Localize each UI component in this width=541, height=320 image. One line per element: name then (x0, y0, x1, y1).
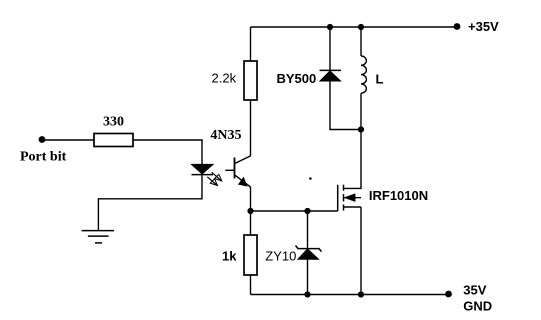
label 35V (463, 283, 486, 298)
label 2.2k (212, 71, 237, 86)
phototransistor of 4N35 (225, 156, 250, 187)
wire gate line (251, 210, 338, 212)
label 4N35 (210, 128, 241, 143)
label BY500 (277, 71, 317, 86)
wire rail to inductor L (360, 27, 362, 56)
svg-text:2.2k: 2.2k (212, 71, 237, 86)
resistor 330 (94, 134, 133, 147)
wire rail to BY500 cathode (329, 27, 331, 71)
stray dot (309, 177, 312, 180)
node Port bit terminal (39, 136, 46, 143)
label IRF1010N (369, 188, 428, 203)
svg-text:L: L (376, 72, 384, 87)
wire +35V rail (251, 26, 458, 28)
wire 1k to ground rail (250, 275, 252, 295)
junction dot zener/gate node (304, 208, 310, 214)
svg-text:Port bit: Port bit (20, 149, 67, 164)
label Port bit (20, 149, 67, 164)
wire from R 330 to LED anode (133, 140, 202, 164)
svg-text:1k: 1k (222, 249, 237, 264)
junction dot BY500 top (327, 24, 333, 30)
diode BY500 (320, 70, 342, 81)
wire MOSFET source to ground rail (360, 207, 362, 295)
junction dot source bottom (358, 291, 364, 297)
label ZY10 (265, 249, 296, 264)
svg-text:GND: GND (463, 298, 492, 313)
label GND (463, 298, 492, 313)
wire gate node to zener ZY10 (307, 211, 309, 249)
junction dot L bottom / drain node (358, 126, 364, 132)
junction dot zener bottom (304, 291, 310, 297)
svg-text:IRF1010N: IRF1010N (369, 188, 428, 203)
svg-text:+35V: +35V (468, 19, 499, 34)
wire from LED cathode to ground (98, 175, 202, 231)
junction dot emitter/1k node (247, 208, 253, 214)
label 330 (103, 114, 124, 129)
wire drain node to MOSFET drain (344, 130, 361, 189)
svg-text:BY500: BY500 (277, 71, 317, 86)
resistor 1k (244, 235, 257, 275)
wire L to drain node (360, 93, 362, 129)
wire BY500 anode to L bottom node (330, 81, 361, 130)
label +35V (468, 19, 499, 34)
svg-text:4N35: 4N35 (210, 128, 241, 143)
node 35V GND terminal (445, 291, 452, 298)
wire ground rail 35V GND (251, 294, 449, 296)
wire 4N35 emitter down to gate node (250, 187, 252, 211)
wire 4N35 collector to resistor 2.2k (250, 100, 252, 156)
label L (376, 72, 384, 87)
resistor 2.2k (244, 61, 257, 100)
light emission arrows of 4N35 (207, 172, 222, 185)
transistor IRF1010N (338, 185, 361, 211)
wire 2.2k top to +35V rail (250, 27, 252, 61)
ground (82, 231, 115, 243)
junction dot L top (358, 24, 364, 30)
label 1k (222, 249, 237, 264)
zener diode ZY10 (296, 246, 322, 260)
svg-text:35V: 35V (463, 283, 486, 298)
wire from Port bit terminal to R 330 (42, 139, 94, 141)
svg-text:ZY10: ZY10 (265, 249, 296, 264)
wire node to resistor 1k (250, 211, 252, 235)
wire ZY10 anode to ground rail (307, 259, 309, 295)
svg-text:330: 330 (103, 114, 124, 129)
inductor L (361, 56, 366, 93)
node +35V terminal (454, 23, 461, 30)
LED of opto 4N35 (192, 164, 214, 174)
